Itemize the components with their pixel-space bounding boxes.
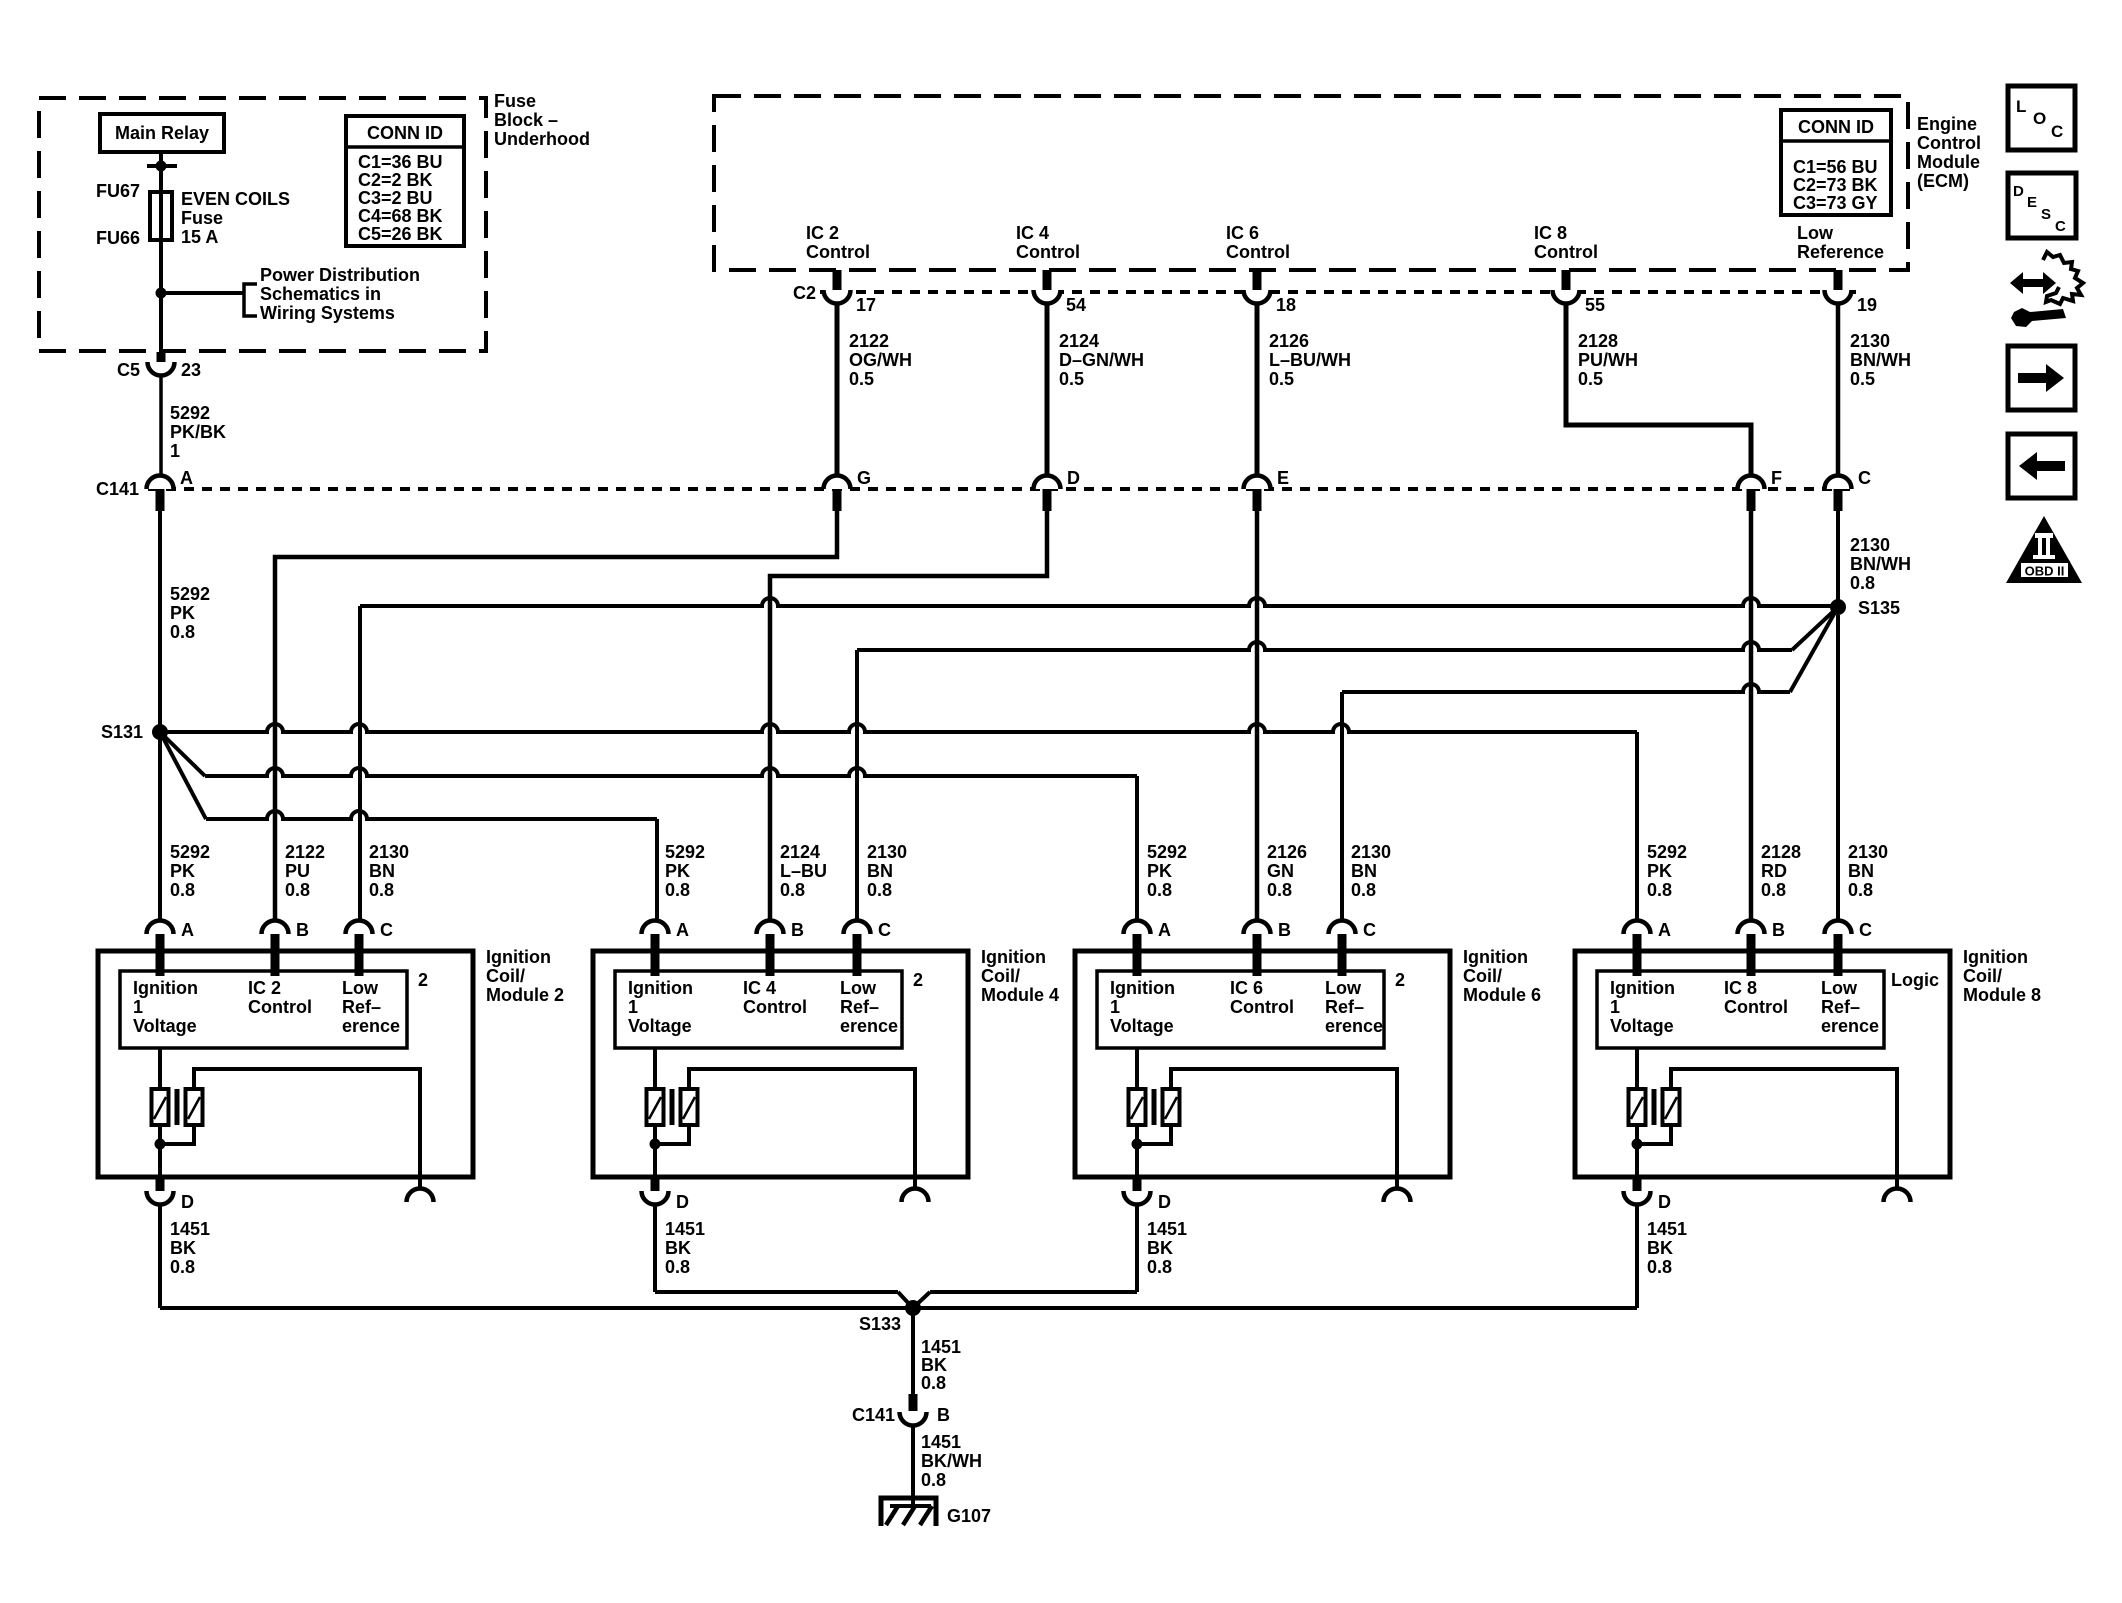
bus 2130 BN to module4 C <box>857 642 1792 650</box>
C141 pin G stub <box>833 489 842 511</box>
ECM pin 54 cup <box>1034 290 1061 304</box>
module2 pin D stub <box>156 1177 165 1191</box>
module8 wire A pin to coil <box>1635 1048 1639 1089</box>
module8 wire junction to pin D <box>1635 1144 1639 1177</box>
module8 pin D cup <box>1624 1191 1651 1205</box>
wire ground bus S133 to module2/module8 <box>160 1306 1637 1310</box>
svg-text:B: B <box>1278 920 1291 940</box>
module6 pin D stub <box>1133 1177 1142 1191</box>
coil secondary winding module8 <box>1663 1089 1680 1125</box>
coil core module6 <box>1152 1089 1157 1125</box>
svg-text:(ECM): (ECM) <box>1917 171 1969 191</box>
C141 pin A stub <box>156 489 165 511</box>
wire 2122 OG/WH (IC2) <box>835 303 840 476</box>
svg-text:B: B <box>1772 920 1785 940</box>
ground hatch stroke 2 <box>903 1506 915 1525</box>
svg-text:IC 2: IC 2 <box>806 223 839 243</box>
svg-text:Ref–: Ref– <box>1325 997 1364 1017</box>
module8 inner box <box>1597 971 1884 1048</box>
svg-text:BK: BK <box>1147 1238 1173 1258</box>
svg-text:0.5: 0.5 <box>1059 369 1084 389</box>
icon OBD II triangle <box>2006 516 2082 583</box>
svg-text:Ref–: Ref– <box>840 997 879 1017</box>
svg-text:C: C <box>1858 468 1871 488</box>
power distribution bracket <box>244 284 257 316</box>
coil secondary diagonal module6 <box>1165 1097 1177 1119</box>
svg-text:Coil/: Coil/ <box>1963 966 2002 986</box>
svg-text:D: D <box>1658 1192 1671 1212</box>
svg-text:0.8: 0.8 <box>1351 880 1376 900</box>
svg-text:55: 55 <box>1585 295 1605 315</box>
module8 pin B stub <box>1747 934 1756 976</box>
svg-text:BK: BK <box>1647 1238 1673 1258</box>
svg-text:2130: 2130 <box>1848 842 1888 862</box>
svg-text:Ignition: Ignition <box>1463 947 1528 967</box>
svg-text:Module: Module <box>1917 152 1980 172</box>
svg-text:Ignition: Ignition <box>1610 978 1675 998</box>
svg-text:erence: erence <box>1325 1016 1383 1036</box>
module4 wire primary bottom to junction <box>653 1125 657 1152</box>
module4 wire secondary bottom L <box>655 1125 689 1144</box>
svg-text:Control: Control <box>1016 242 1080 262</box>
svg-text:Control: Control <box>1917 133 1981 153</box>
coil secondary winding module2 <box>186 1089 203 1125</box>
ECM pin 19 stub <box>1834 270 1843 290</box>
ignition coil module 4 box <box>593 951 968 1177</box>
svg-text:FU66: FU66 <box>96 228 140 248</box>
junction dot power distribution tap <box>156 288 167 299</box>
svg-text:Control: Control <box>1534 242 1598 262</box>
svg-text:2: 2 <box>1395 970 1405 990</box>
svg-text:BK/WH: BK/WH <box>921 1451 982 1471</box>
ignition coil module 6 box <box>1075 951 1450 1177</box>
svg-text:0.8: 0.8 <box>1147 880 1172 900</box>
conn id ECM separator <box>1781 139 1891 143</box>
module6 internal junction dot <box>1132 1139 1143 1150</box>
module4 internal junction dot <box>650 1139 661 1150</box>
wire 1451 BK module8 D down <box>1635 1204 1639 1308</box>
wire 1451 BK module4 D down <box>653 1204 657 1292</box>
svg-text:C: C <box>1859 920 1872 940</box>
wire module2 C drop <box>358 606 362 920</box>
ECM pin 55 cup <box>1553 290 1580 304</box>
ground hatch stroke 3 <box>920 1506 932 1525</box>
svg-text:2124: 2124 <box>1059 331 1099 351</box>
svg-text:PK: PK <box>1647 861 1672 881</box>
svg-text:PK: PK <box>665 861 690 881</box>
svg-text:D: D <box>2013 183 2024 200</box>
ECM pin 17 cup <box>824 290 851 304</box>
svg-text:C: C <box>2051 122 2063 141</box>
svg-text:Coil/: Coil/ <box>486 966 525 986</box>
svg-text:0.8: 0.8 <box>1848 880 1873 900</box>
svg-text:5292: 5292 <box>665 842 705 862</box>
svg-text:19: 19 <box>1857 295 1877 315</box>
svg-text:Low: Low <box>1325 978 1362 998</box>
svg-text:Ignition: Ignition <box>133 978 198 998</box>
connector C5 cup <box>148 362 175 376</box>
module6 pin C stub <box>1338 934 1347 976</box>
svg-text:23: 23 <box>181 360 201 380</box>
C141 pin C cap <box>1825 476 1852 490</box>
icon right arrow <box>2018 364 2064 392</box>
module4 inner box <box>615 971 902 1048</box>
svg-text:CONN ID: CONN ID <box>367 123 443 143</box>
svg-text:1451: 1451 <box>921 1432 961 1452</box>
module2 wire secondary top to spark output <box>194 1069 420 1188</box>
svg-text:IC 8: IC 8 <box>1534 223 1567 243</box>
coil primary winding module6 <box>1129 1089 1146 1125</box>
svg-text:1: 1 <box>628 997 638 1017</box>
coil core module2 <box>175 1089 180 1125</box>
svg-text:0.8: 0.8 <box>369 880 394 900</box>
svg-text:5292: 5292 <box>1147 842 1187 862</box>
module2 pin C cap <box>346 921 373 934</box>
wire IC8 control F to module8 B <box>1749 511 1754 920</box>
C141 pin D stub <box>1043 489 1052 511</box>
svg-text:Module 6: Module 6 <box>1463 985 1541 1005</box>
main relay box <box>100 114 224 152</box>
svg-text:Wiring Systems: Wiring Systems <box>260 303 395 323</box>
wire module6 A drop <box>1135 776 1139 920</box>
svg-text:A: A <box>181 920 194 940</box>
wire 1451 BK/WH to ground <box>911 1425 915 1507</box>
module8 wire secondary top to spark output <box>1671 1069 1897 1188</box>
C141 pin F stub <box>1747 489 1756 511</box>
ECM pin 54 stub <box>1043 270 1052 290</box>
svg-text:IC 4: IC 4 <box>743 978 776 998</box>
svg-text:2126: 2126 <box>1269 331 1309 351</box>
svg-text:0.5: 0.5 <box>1850 369 1875 389</box>
module4 spark output cap <box>902 1189 929 1203</box>
svg-text:D: D <box>1067 468 1080 488</box>
svg-text:2: 2 <box>418 970 428 990</box>
svg-text:BN: BN <box>1351 861 1377 881</box>
module6 pin A cap <box>1124 921 1151 934</box>
svg-text:1: 1 <box>170 441 180 461</box>
icon hook outline <box>2043 252 2083 304</box>
svg-text:1: 1 <box>1610 997 1620 1017</box>
bus 2130 BN S135 to module2 C <box>360 598 1838 606</box>
svg-text:Module 4: Module 4 <box>981 985 1059 1005</box>
C141 pin F cap <box>1738 476 1765 490</box>
svg-text:5292: 5292 <box>170 584 210 604</box>
svg-text:IC 8: IC 8 <box>1724 978 1757 998</box>
wire IC6 control E to module6 B <box>1255 511 1260 920</box>
svg-text:Control: Control <box>1724 997 1788 1017</box>
module6 wire primary bottom to junction <box>1135 1125 1139 1152</box>
svg-text:C2: C2 <box>793 283 816 303</box>
junction S133 <box>905 1300 921 1316</box>
coil primary diagonal module4 <box>649 1097 661 1119</box>
module8 pin D stub <box>1633 1177 1642 1191</box>
svg-text:BK: BK <box>921 1355 947 1375</box>
wire S133 down to C141 B <box>911 1308 915 1396</box>
ECM pin 18 cup <box>1244 290 1271 304</box>
C141 pin A cap <box>147 476 174 490</box>
module2 pin B cap <box>262 921 289 934</box>
module8 spark output cap <box>1884 1189 1911 1203</box>
bus 5292 PK from S131 to module8 A <box>160 724 1637 732</box>
C141 pin D cap <box>1034 476 1061 490</box>
svg-text:BK: BK <box>665 1238 691 1258</box>
svg-text:15 A: 15 A <box>181 227 218 247</box>
module4 pin D cup <box>642 1191 669 1205</box>
svg-text:CONN ID: CONN ID <box>1798 117 1874 137</box>
svg-text:IC 4: IC 4 <box>1016 223 1049 243</box>
svg-text:BN/WH: BN/WH <box>1850 554 1911 574</box>
svg-text:5292: 5292 <box>170 403 210 423</box>
wire main relay to fuse <box>159 152 163 192</box>
conn id box (fuse block) <box>346 116 464 246</box>
svg-text:2130: 2130 <box>1351 842 1391 862</box>
coil secondary winding module4 <box>681 1089 698 1125</box>
connector C141 B cup <box>900 1412 927 1426</box>
module2 wire secondary bottom L <box>160 1125 194 1144</box>
svg-text:0.8: 0.8 <box>1267 880 1292 900</box>
svg-text:Ignition: Ignition <box>981 947 1046 967</box>
svg-text:C3=2 BU: C3=2 BU <box>358 188 433 208</box>
svg-text:0.5: 0.5 <box>1269 369 1294 389</box>
svg-text:Control: Control <box>248 997 312 1017</box>
C141 pin G cap <box>824 476 851 490</box>
junction S131 <box>152 724 168 740</box>
module6 wire junction to pin D <box>1135 1144 1139 1177</box>
svg-text:PU: PU <box>285 861 310 881</box>
module8 pin C stub <box>1834 934 1843 976</box>
wire 2126 L-BU/WH (IC6) <box>1255 303 1260 476</box>
module8 pin B cap <box>1738 921 1765 934</box>
module2 spark output cap <box>407 1189 434 1203</box>
bus 2130 BN to module6 C <box>1342 684 1790 692</box>
svg-text:Voltage: Voltage <box>1610 1016 1674 1036</box>
module4 wire A pin to coil <box>653 1048 657 1089</box>
svg-text:Engine: Engine <box>1917 114 1977 134</box>
ECM pin 18 stub <box>1253 270 1262 290</box>
C141 pin E cap <box>1244 476 1271 490</box>
wire IC4 control D to module4 B <box>770 511 1047 920</box>
svg-text:D: D <box>1158 1192 1171 1212</box>
svg-text:Ref–: Ref– <box>1821 997 1860 1017</box>
ground symbol hatch bar <box>890 1504 931 1508</box>
module6 pin C cap <box>1329 921 1356 934</box>
ECM pin 19 cup <box>1825 290 1852 304</box>
svg-text:18: 18 <box>1276 295 1296 315</box>
svg-text:0.8: 0.8 <box>1850 573 1875 593</box>
coil secondary diagonal module2 <box>188 1097 200 1119</box>
svg-text:A: A <box>180 468 193 488</box>
svg-text:L–BU/WH: L–BU/WH <box>1269 350 1351 370</box>
svg-text:54: 54 <box>1066 295 1086 315</box>
ignition coil module 8 box <box>1575 951 1950 1177</box>
wire 2130 BN S135 to module8 C <box>1836 615 1840 920</box>
svg-text:Low: Low <box>342 978 379 998</box>
svg-text:Coil/: Coil/ <box>1463 966 1502 986</box>
wire to power distribution bracket <box>161 291 244 295</box>
coil secondary winding module6 <box>1163 1089 1180 1125</box>
svg-text:Ignition: Ignition <box>628 978 693 998</box>
module4 pin B stub <box>766 934 775 976</box>
wire module4 ground diagonal to S133 <box>898 1292 911 1306</box>
svg-text:F: F <box>1771 468 1782 488</box>
ground hatch stroke 1 <box>886 1506 898 1525</box>
svg-text:Main Relay: Main Relay <box>115 123 209 143</box>
svg-text:2130: 2130 <box>867 842 907 862</box>
svg-text:Ignition: Ignition <box>1963 947 2028 967</box>
svg-text:2: 2 <box>913 970 923 990</box>
module2 pin A cap <box>147 921 174 934</box>
wire fuse to C5 <box>159 166 163 352</box>
svg-text:5292: 5292 <box>1647 842 1687 862</box>
svg-text:1451: 1451 <box>1647 1219 1687 1239</box>
svg-text:PK: PK <box>1147 861 1172 881</box>
icon right arrow box <box>2008 346 2075 410</box>
bus 5292 PK to module6 A <box>205 768 1137 776</box>
svg-text:S135: S135 <box>1858 598 1900 618</box>
module6 pin B stub <box>1253 934 1262 976</box>
svg-text:Fuse: Fuse <box>181 208 223 228</box>
svg-text:IC 2: IC 2 <box>248 978 281 998</box>
module6 wire secondary top to spark output <box>1171 1069 1397 1188</box>
svg-text:Voltage: Voltage <box>133 1016 197 1036</box>
svg-text:2130: 2130 <box>369 842 409 862</box>
svg-text:0.8: 0.8 <box>1647 1257 1672 1277</box>
module6 wire secondary bottom L <box>1137 1125 1171 1144</box>
svg-text:G107: G107 <box>947 1506 991 1526</box>
svg-text:OBD II: OBD II <box>2025 564 2065 579</box>
module2 pin B stub <box>271 934 280 976</box>
coil primary winding module2 <box>152 1089 169 1125</box>
svg-text:0.8: 0.8 <box>921 1373 946 1393</box>
module6 wire A pin to coil <box>1135 1048 1139 1089</box>
svg-text:0.8: 0.8 <box>665 880 690 900</box>
svg-text:0.8: 0.8 <box>1147 1257 1172 1277</box>
coil primary winding module8 <box>1629 1089 1646 1125</box>
svg-text:C1=56 BU: C1=56 BU <box>1793 157 1878 177</box>
junction dot fuse top <box>156 161 167 172</box>
svg-text:BN/WH: BN/WH <box>1850 350 1911 370</box>
coil primary diagonal module8 <box>1631 1097 1643 1119</box>
module4 pin A stub <box>651 934 660 976</box>
wire 2128 PU/WH (IC8) jog <box>1566 303 1751 476</box>
wire module4 ground horizontal <box>655 1290 898 1294</box>
module6 inner box <box>1097 971 1384 1048</box>
svg-text:Control: Control <box>1230 997 1294 1017</box>
fuse clip bar <box>147 164 177 168</box>
module4 pin C stub <box>853 934 862 976</box>
wire module6 ground diagonal to S133 <box>915 1292 930 1306</box>
svg-text:S: S <box>2041 206 2051 223</box>
module8 pin C cap <box>1825 921 1852 934</box>
module8 internal junction dot <box>1632 1139 1643 1150</box>
svg-text:2124: 2124 <box>780 842 820 862</box>
connector C5 stub <box>157 352 166 362</box>
svg-text:O: O <box>2033 109 2046 128</box>
svg-text:0.8: 0.8 <box>1647 880 1672 900</box>
svg-text:PK: PK <box>170 861 195 881</box>
svg-text:erence: erence <box>342 1016 400 1036</box>
svg-text:C1=36 BU: C1=36 BU <box>358 152 443 172</box>
engine control module dashed box <box>714 96 1908 270</box>
svg-text:Fuse: Fuse <box>494 91 536 111</box>
svg-text:A: A <box>1158 920 1171 940</box>
connector C141 B stub <box>909 1394 918 1411</box>
connector row C141 dotted line <box>148 487 1852 491</box>
svg-text:0.8: 0.8 <box>867 880 892 900</box>
svg-text:1451: 1451 <box>665 1219 705 1239</box>
coil primary winding module4 <box>647 1089 664 1125</box>
module6 pin A stub <box>1133 934 1142 976</box>
icon OBD II banner <box>2020 562 2069 578</box>
S131 diagonal to bus2 <box>160 732 205 776</box>
svg-text:Ignition: Ignition <box>486 947 551 967</box>
svg-text:Reference: Reference <box>1797 242 1884 262</box>
module2 inner box <box>120 971 407 1048</box>
wire 5292 PK C141-A to S131 <box>158 511 162 732</box>
svg-text:2130: 2130 <box>1850 535 1890 555</box>
svg-text:EVEN COILS: EVEN COILS <box>181 189 290 209</box>
wire module2 A drop <box>158 732 162 920</box>
conn id box (ECM) <box>1781 110 1891 215</box>
svg-text:Module 8: Module 8 <box>1963 985 2041 1005</box>
icon swap arrows <box>2010 272 2056 294</box>
svg-text:Low: Low <box>840 978 877 998</box>
module4 wire secondary top to spark output <box>689 1069 915 1188</box>
fuse FU66/FU67 body <box>150 192 172 240</box>
svg-text:C: C <box>2055 218 2066 235</box>
svg-text:FU67: FU67 <box>96 181 140 201</box>
svg-text:L–BU: L–BU <box>780 861 827 881</box>
coil secondary diagonal module8 <box>1665 1097 1677 1119</box>
icon left arrow <box>2019 452 2065 480</box>
svg-text:Voltage: Voltage <box>628 1016 692 1036</box>
svg-text:OG/WH: OG/WH <box>849 350 912 370</box>
svg-text:S131: S131 <box>101 722 143 742</box>
module6 spark output cap <box>1384 1189 1411 1203</box>
module6 pin D cup <box>1124 1191 1151 1205</box>
svg-text:erence: erence <box>1821 1016 1879 1036</box>
wire 1451 BK module2 D down <box>158 1204 162 1308</box>
svg-text:1451: 1451 <box>921 1337 961 1357</box>
C141 pin E stub <box>1253 489 1262 511</box>
icon wrench <box>2011 308 2066 327</box>
svg-text:E: E <box>1277 468 1289 488</box>
svg-text:C: C <box>380 920 393 940</box>
svg-text:RD: RD <box>1761 861 1787 881</box>
svg-text:Control: Control <box>1226 242 1290 262</box>
svg-text:C5: C5 <box>117 360 140 380</box>
svg-text:A: A <box>676 920 689 940</box>
wire 2124 D-GN/WH (IC4) <box>1045 303 1050 476</box>
svg-text:BN: BN <box>369 861 395 881</box>
svg-text:0.5: 0.5 <box>849 369 874 389</box>
module2 pin D cup <box>147 1191 174 1205</box>
svg-text:C2=73 BK: C2=73 BK <box>1793 175 1878 195</box>
wire 5292 PK/BK segment <box>159 375 163 475</box>
svg-text:PK: PK <box>170 603 195 623</box>
svg-text:Logic: Logic <box>1891 970 1939 990</box>
svg-text:Ref–: Ref– <box>342 997 381 1017</box>
svg-text:Coil/: Coil/ <box>981 966 1020 986</box>
svg-text:C: C <box>878 920 891 940</box>
svg-text:Ignition: Ignition <box>1110 978 1175 998</box>
module2 wire primary bottom to junction <box>158 1125 162 1152</box>
ECM pin 17 stub <box>833 270 842 290</box>
svg-text:Low: Low <box>1797 223 1834 243</box>
svg-text:0.5: 0.5 <box>1578 369 1603 389</box>
wire 2130 BN/WH C141-C to S135 <box>1836 511 1840 606</box>
icon LOC box <box>2008 86 2075 150</box>
